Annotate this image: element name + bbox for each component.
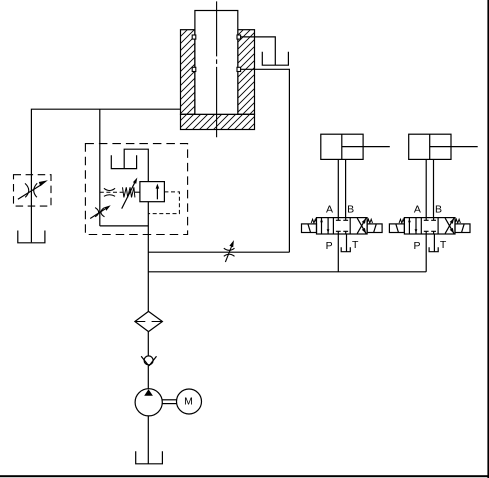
svg-text:M: M: [184, 395, 193, 407]
